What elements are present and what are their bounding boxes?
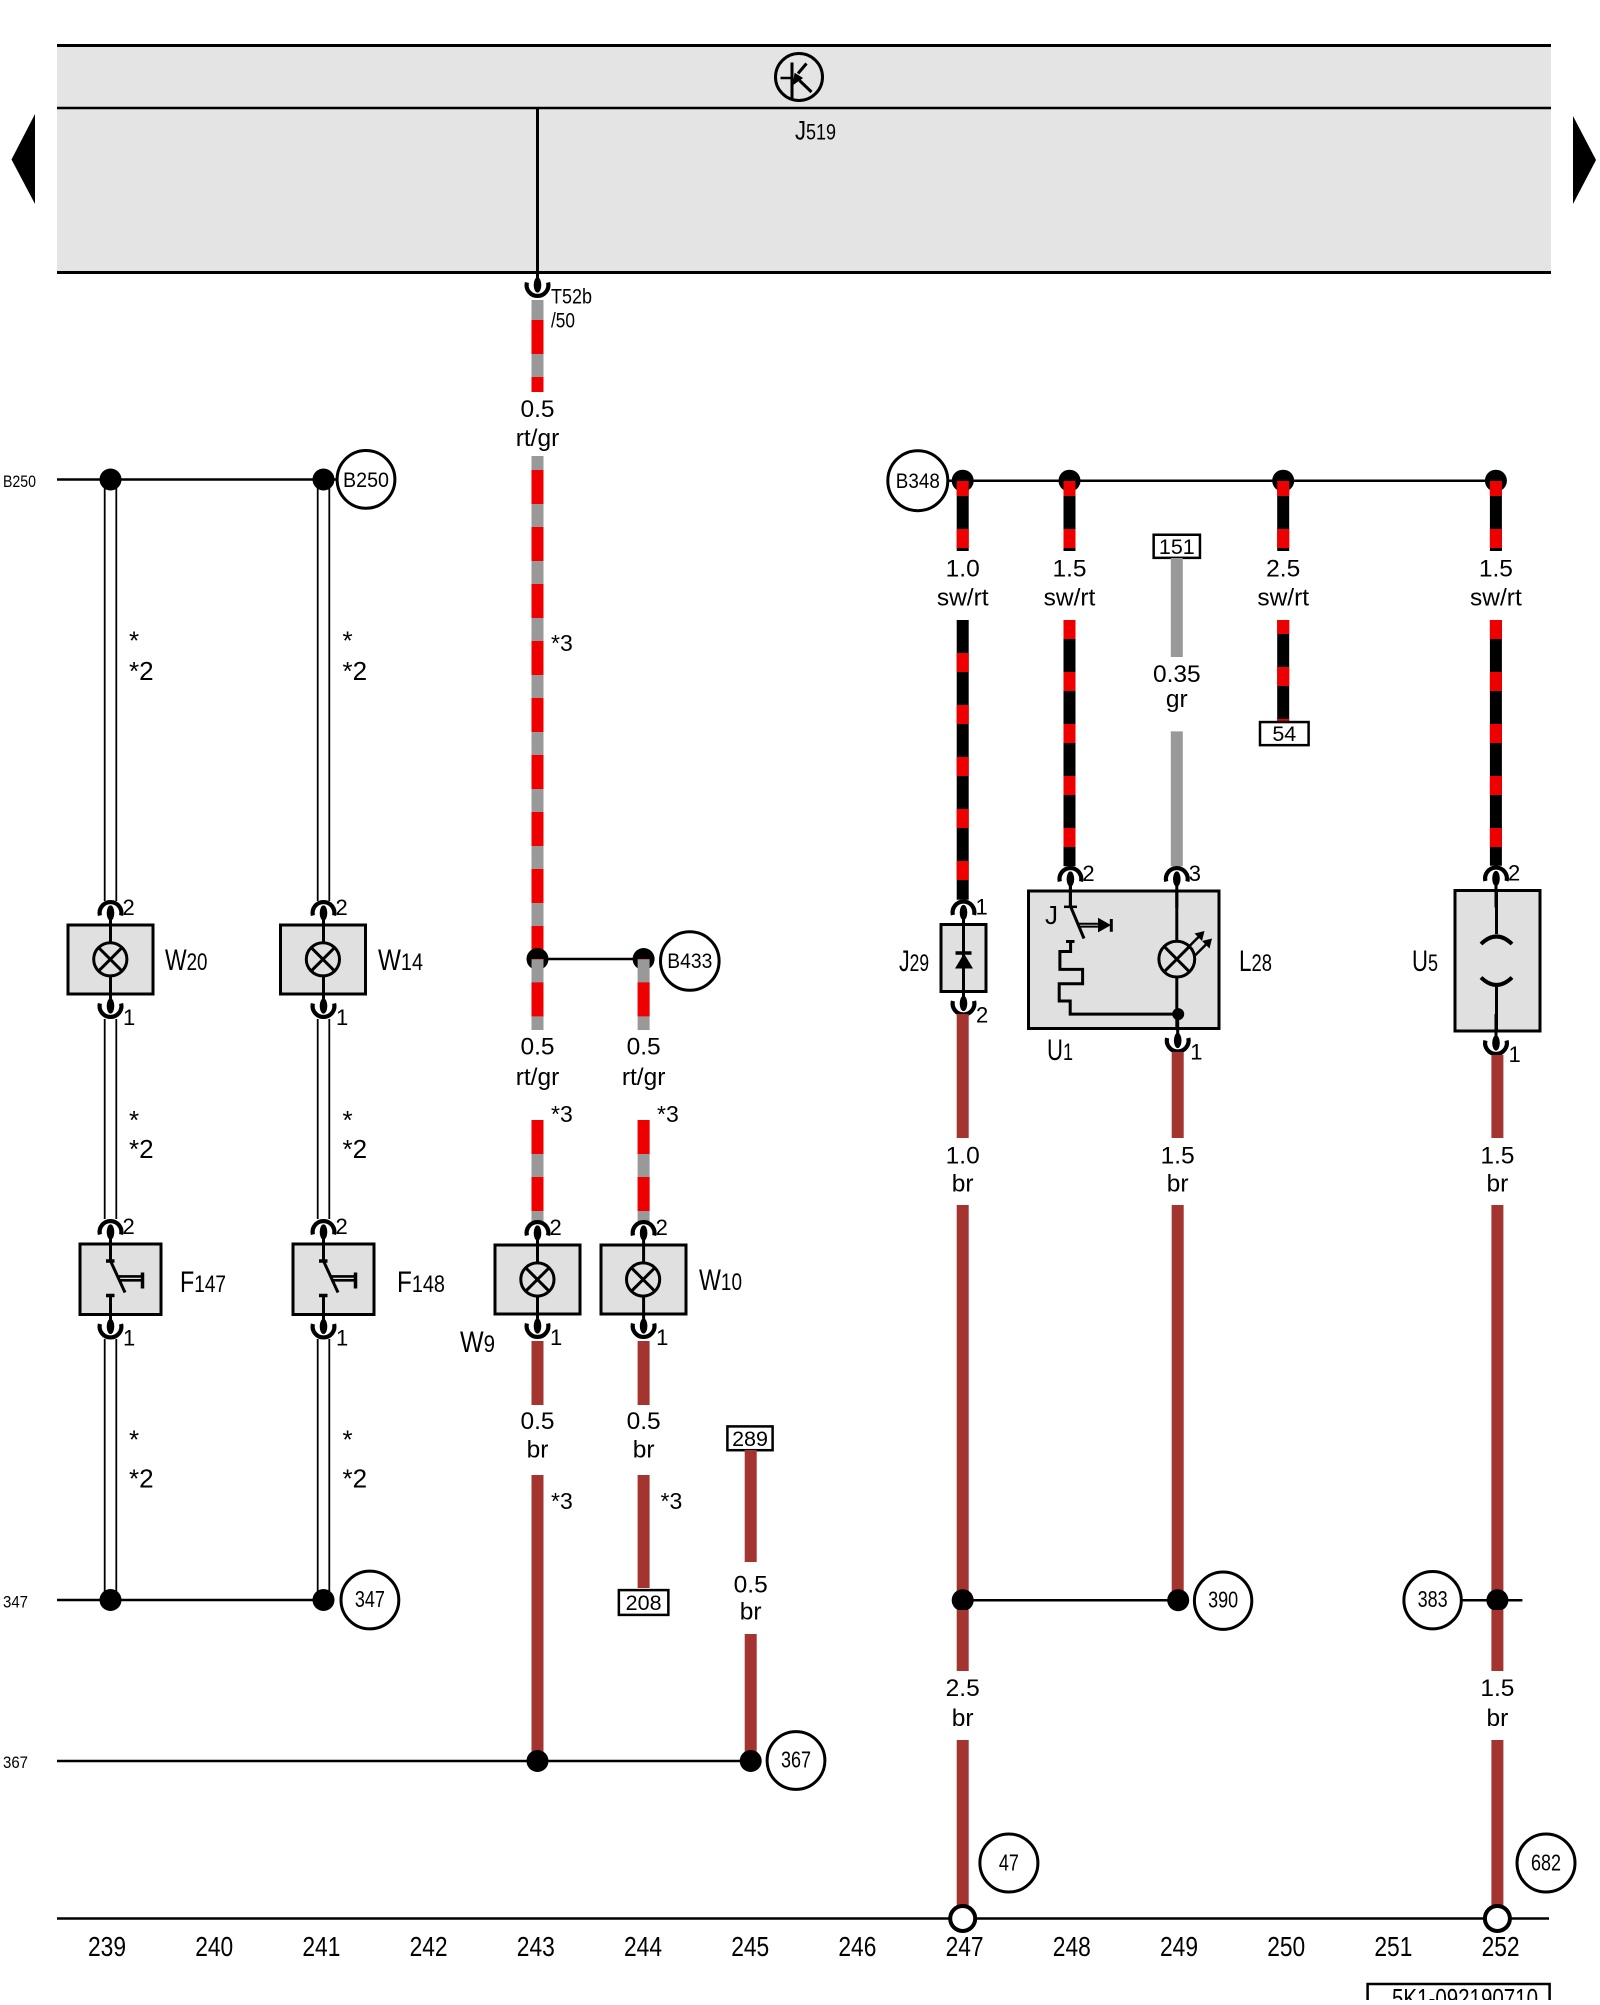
svg-text:*3: *3 (551, 1101, 573, 1127)
svg-text:B250: B250 (343, 469, 389, 492)
svg-text:rt/gr: rt/gr (622, 1064, 666, 1091)
svg-text:rt/gr: rt/gr (516, 1064, 560, 1091)
svg-text:252: 252 (1482, 1931, 1520, 1962)
svg-text:*: * (129, 1425, 139, 1455)
svg-text:1.5: 1.5 (1052, 556, 1086, 583)
svg-text:2: 2 (1082, 861, 1094, 886)
svg-text:1.5: 1.5 (1480, 1143, 1514, 1170)
svg-text:1.0: 1.0 (946, 556, 980, 583)
svg-text:3: 3 (1189, 861, 1201, 886)
svg-text:0.5: 0.5 (520, 1034, 554, 1061)
svg-text:248: 248 (1053, 1931, 1091, 1962)
svg-text:208: 208 (626, 1591, 662, 1615)
svg-text:250: 250 (1267, 1931, 1305, 1962)
svg-text:2: 2 (123, 1214, 135, 1239)
svg-text:W20: W20 (165, 944, 208, 977)
svg-text:*2: *2 (343, 1134, 368, 1164)
svg-text:*2: *2 (343, 656, 368, 686)
svg-text:*: * (343, 1425, 353, 1455)
svg-text:*: * (129, 626, 139, 656)
svg-text:5K1-092190710: 5K1-092190710 (1392, 1983, 1538, 2000)
svg-text:2: 2 (1508, 861, 1520, 886)
svg-text:1.0: 1.0 (946, 1143, 980, 1170)
svg-text:W14: W14 (378, 944, 423, 977)
svg-text:1: 1 (1190, 1040, 1202, 1065)
svg-text:1.5: 1.5 (1479, 556, 1513, 583)
svg-text:390: 390 (1208, 1587, 1238, 1613)
svg-text:F147: F147 (180, 1266, 226, 1299)
svg-text:1.5: 1.5 (1161, 1143, 1195, 1170)
svg-text:347: 347 (355, 1586, 385, 1612)
svg-text:B348: B348 (896, 470, 940, 493)
svg-text:*: * (129, 1105, 139, 1135)
svg-text:J29: J29 (899, 945, 929, 978)
svg-text:151: 151 (1159, 535, 1195, 559)
svg-text:*3: *3 (657, 1101, 679, 1127)
svg-text:247: 247 (946, 1931, 984, 1962)
svg-text:249: 249 (1160, 1931, 1198, 1962)
svg-text:sw/rt: sw/rt (1257, 585, 1309, 612)
svg-text:br: br (1487, 1705, 1509, 1732)
svg-text:gr: gr (1166, 686, 1188, 713)
svg-text:1: 1 (336, 1326, 348, 1351)
svg-text:1: 1 (656, 1325, 668, 1350)
svg-text:U1: U1 (1047, 1034, 1073, 1067)
svg-text:682: 682 (1531, 1850, 1561, 1876)
svg-text:J: J (1045, 900, 1058, 930)
svg-text:br: br (740, 1599, 762, 1626)
svg-text:*3: *3 (551, 630, 573, 656)
svg-text:br: br (1487, 1171, 1509, 1198)
svg-text:251: 251 (1374, 1931, 1412, 1962)
svg-text:br: br (1167, 1171, 1189, 1198)
svg-text:T52b: T52b (551, 286, 592, 309)
svg-text:0.5: 0.5 (627, 1034, 661, 1061)
svg-text:242: 242 (410, 1931, 448, 1962)
svg-text:2: 2 (336, 1214, 348, 1239)
svg-text:sw/rt: sw/rt (1470, 585, 1522, 612)
svg-text:2: 2 (976, 1003, 988, 1028)
svg-text:2: 2 (123, 895, 135, 920)
svg-text:239: 239 (88, 1931, 126, 1962)
svg-text:246: 246 (838, 1931, 876, 1962)
svg-text:*: * (343, 626, 353, 656)
svg-text:0.5: 0.5 (627, 1408, 661, 1435)
svg-text:/50: /50 (551, 310, 575, 333)
svg-text:U5: U5 (1412, 945, 1438, 978)
svg-text:1: 1 (123, 1005, 135, 1030)
svg-text:2: 2 (550, 1215, 562, 1240)
svg-text:br: br (633, 1437, 655, 1464)
svg-text:0.5: 0.5 (520, 1408, 554, 1435)
svg-text:1.5: 1.5 (1480, 1675, 1514, 1702)
svg-text:2: 2 (656, 1215, 668, 1240)
svg-text:1: 1 (550, 1325, 562, 1350)
svg-text:L28: L28 (1239, 945, 1272, 978)
svg-text:0.35: 0.35 (1153, 661, 1201, 688)
svg-text:289: 289 (732, 1427, 768, 1451)
svg-text:383: 383 (1418, 1586, 1448, 1612)
svg-text:245: 245 (731, 1931, 769, 1962)
svg-text:br: br (527, 1437, 549, 1464)
svg-text:*: * (343, 1105, 353, 1135)
svg-text:W10: W10 (699, 1264, 742, 1297)
svg-text:1: 1 (336, 1005, 348, 1030)
svg-text:J519: J519 (795, 116, 836, 146)
svg-text:1: 1 (123, 1326, 135, 1351)
svg-text:2.5: 2.5 (946, 1675, 980, 1702)
svg-text:241: 241 (302, 1931, 340, 1962)
svg-text:2.5: 2.5 (1266, 556, 1300, 583)
svg-text:2: 2 (336, 895, 348, 920)
svg-text:W9: W9 (460, 1326, 495, 1359)
svg-text:*2: *2 (129, 656, 154, 686)
svg-text:0.5: 0.5 (520, 396, 554, 423)
svg-text:367: 367 (781, 1747, 811, 1773)
svg-text:br: br (952, 1705, 974, 1732)
svg-text:244: 244 (624, 1931, 662, 1962)
svg-text:*2: *2 (343, 1464, 368, 1494)
svg-text:47: 47 (999, 1850, 1019, 1876)
svg-text:sw/rt: sw/rt (937, 585, 989, 612)
svg-text:*2: *2 (129, 1134, 154, 1164)
svg-text:F148: F148 (397, 1266, 445, 1299)
svg-text:sw/rt: sw/rt (1044, 585, 1096, 612)
svg-text:rt/gr: rt/gr (516, 425, 560, 452)
svg-text:br: br (952, 1171, 974, 1198)
svg-text:*3: *3 (661, 1488, 683, 1514)
svg-text:1: 1 (976, 895, 988, 920)
svg-text:*3: *3 (551, 1488, 573, 1514)
svg-text:B433: B433 (667, 950, 712, 973)
svg-text:243: 243 (517, 1931, 555, 1962)
svg-text:1: 1 (1509, 1042, 1521, 1067)
svg-text:54: 54 (1272, 722, 1296, 746)
svg-text:240: 240 (195, 1931, 233, 1962)
svg-text:B250: B250 (3, 472, 36, 491)
svg-text:367: 367 (3, 1753, 28, 1772)
svg-text:347: 347 (3, 1593, 28, 1612)
svg-text:0.5: 0.5 (734, 1572, 768, 1599)
svg-text:*2: *2 (129, 1464, 154, 1494)
